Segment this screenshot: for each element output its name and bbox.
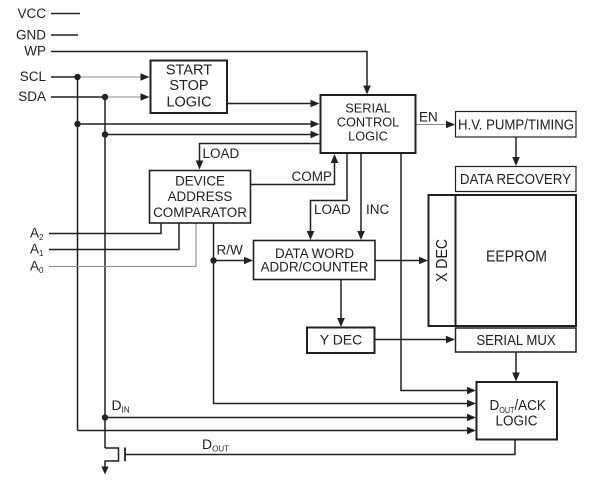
svg-text:H.V. PUMP/TIMING: H.V. PUMP/TIMING xyxy=(458,116,574,133)
svg-text:COMP: COMP xyxy=(292,169,333,184)
svg-text:X DEC: X DEC xyxy=(433,239,451,282)
svg-text:CONTROL: CONTROL xyxy=(337,115,400,130)
svg-text:LOAD: LOAD xyxy=(203,146,240,161)
svg-text:DEVICE: DEVICE xyxy=(175,174,225,189)
svg-text:GND: GND xyxy=(16,27,46,42)
svg-text:START: START xyxy=(166,63,212,79)
svg-text:ADDR/COUNTER: ADDR/COUNTER xyxy=(261,260,369,275)
svg-text:SERIAL: SERIAL xyxy=(345,101,391,116)
svg-text:COMPARATOR: COMPARATOR xyxy=(153,205,247,220)
svg-text:DOUT/ACK: DOUT/ACK xyxy=(490,397,547,415)
svg-text:SERIAL MUX: SERIAL MUX xyxy=(476,331,556,348)
svg-text:INC: INC xyxy=(366,202,390,217)
svg-text:SCL: SCL xyxy=(20,69,47,84)
svg-text:Y DEC: Y DEC xyxy=(320,332,363,348)
svg-text:WP: WP xyxy=(24,44,46,59)
svg-text:LOGIC: LOGIC xyxy=(166,95,211,111)
svg-text:LOAD: LOAD xyxy=(314,202,351,217)
svg-text:ADDRESS: ADDRESS xyxy=(168,189,233,204)
svg-text:EEPROM: EEPROM xyxy=(486,248,547,266)
svg-text:R/W: R/W xyxy=(217,243,244,258)
svg-text:SDA: SDA xyxy=(18,89,46,104)
svg-text:EN: EN xyxy=(419,110,438,125)
svg-text:LOGIC: LOGIC xyxy=(496,413,538,430)
svg-text:STOP: STOP xyxy=(169,78,208,94)
svg-text:DATA RECOVERY: DATA RECOVERY xyxy=(460,171,572,188)
svg-text:VCC: VCC xyxy=(17,6,46,21)
svg-text:LOGIC: LOGIC xyxy=(348,129,388,144)
